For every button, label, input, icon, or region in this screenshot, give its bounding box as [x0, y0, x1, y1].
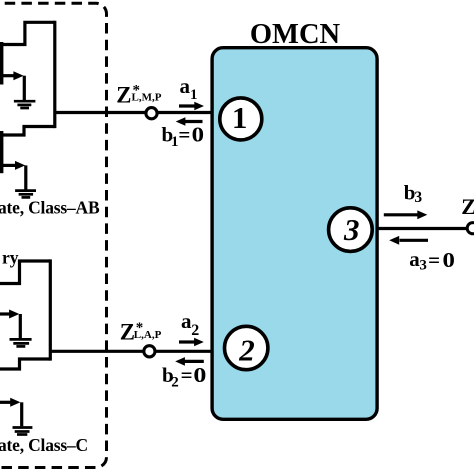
svg-text:1: 1: [190, 87, 198, 103]
label: Z*L,M,P: [116, 82, 161, 107]
arrow: a3 reflected wave: [389, 236, 428, 245]
port 3: [329, 208, 373, 252]
arrow: b1 reflected wave: [176, 117, 203, 126]
label: b1=0: [162, 123, 205, 151]
arrow: b2 reflected wave: [175, 357, 204, 366]
port 1: [220, 98, 262, 140]
ground (Q3 source): [10, 339, 32, 346]
svg-text:ate, Class–AB: ate, Class–AB: [0, 197, 100, 217]
wire: port 3 output: [377, 227, 470, 230]
node: terminal at Z*L,A,P: [144, 346, 155, 357]
transistor Q1 drain path: [0, 22, 55, 44]
transistor Q4 drain path: [0, 359, 50, 369]
svg-text:a: a: [180, 74, 191, 98]
svg-text:=: =: [178, 123, 190, 147]
node: terminal at Z*L,M,P: [146, 108, 157, 119]
svg-text:3: 3: [419, 258, 427, 274]
label: a3=0: [409, 247, 455, 274]
svg-text:ry: ry: [2, 248, 19, 268]
svg-text:3: 3: [414, 189, 422, 206]
label: Z*L,A,P: [120, 320, 162, 345]
svg-text:0: 0: [443, 248, 455, 272]
label: b3: [404, 180, 423, 206]
svg-text:ate, Class–C: ate, Class–C: [0, 435, 88, 455]
svg-text:2: 2: [238, 332, 255, 367]
label: a1: [180, 74, 198, 103]
transistor Q2 drain path: [0, 127, 55, 136]
arrow: b3 transmitted wave: [384, 210, 428, 219]
svg-text:3: 3: [343, 212, 360, 247]
transistor Q3 source stub with arrow: [0, 310, 20, 339]
wire: aux drain bus: [49, 259, 52, 360]
port 2: [225, 326, 268, 369]
ground (Q2 source): [15, 191, 36, 198]
transistor Q2 source stub with arrow: [0, 161, 26, 190]
svg-text:0: 0: [192, 123, 204, 147]
svg-text:1: 1: [232, 100, 248, 135]
label: a2: [181, 309, 199, 339]
svg-text:Z: Z: [116, 82, 131, 107]
wire: main output to port 1: [55, 111, 213, 114]
svg-text:1: 1: [171, 134, 179, 150]
OMCN block (output matching/combining network): [212, 48, 377, 420]
ground (Q1 source): [14, 101, 36, 108]
svg-text:=: =: [428, 248, 440, 272]
svg-text:=: =: [181, 363, 193, 387]
arrow: a1 incident wave: [179, 102, 204, 111]
svg-text:2: 2: [171, 375, 179, 391]
transistor Q3 drain path: [0, 261, 50, 284]
svg-text:Z: Z: [120, 320, 135, 345]
svg-text:OMCN: OMCN: [250, 19, 341, 50]
arrow: a2 incident wave: [179, 338, 204, 347]
svg-text:0: 0: [193, 363, 206, 387]
transistor Q1 source stub with arrow: [0, 71, 24, 100]
wire: main drain bus: [53, 21, 56, 128]
svg-text:2: 2: [191, 322, 199, 339]
node: terminal at load: [467, 223, 474, 234]
label: b2=0: [162, 363, 206, 391]
svg-text:Z: Z: [461, 194, 474, 219]
dashed enclosure (PA cells block): [0, 3, 107, 467]
ground (Q4 source): [13, 428, 33, 435]
wire: aux output to port 2: [50, 350, 212, 353]
svg-text:L,M,P: L,M,P: [132, 92, 162, 104]
transistor Q2 (main device, channel bar): [0, 131, 3, 173]
transistor Q1 (main device, channel bar): [0, 42, 3, 85]
svg-text:L,A,P: L,A,P: [134, 329, 162, 341]
transistor Q4 source stub with arrow: [0, 398, 22, 427]
